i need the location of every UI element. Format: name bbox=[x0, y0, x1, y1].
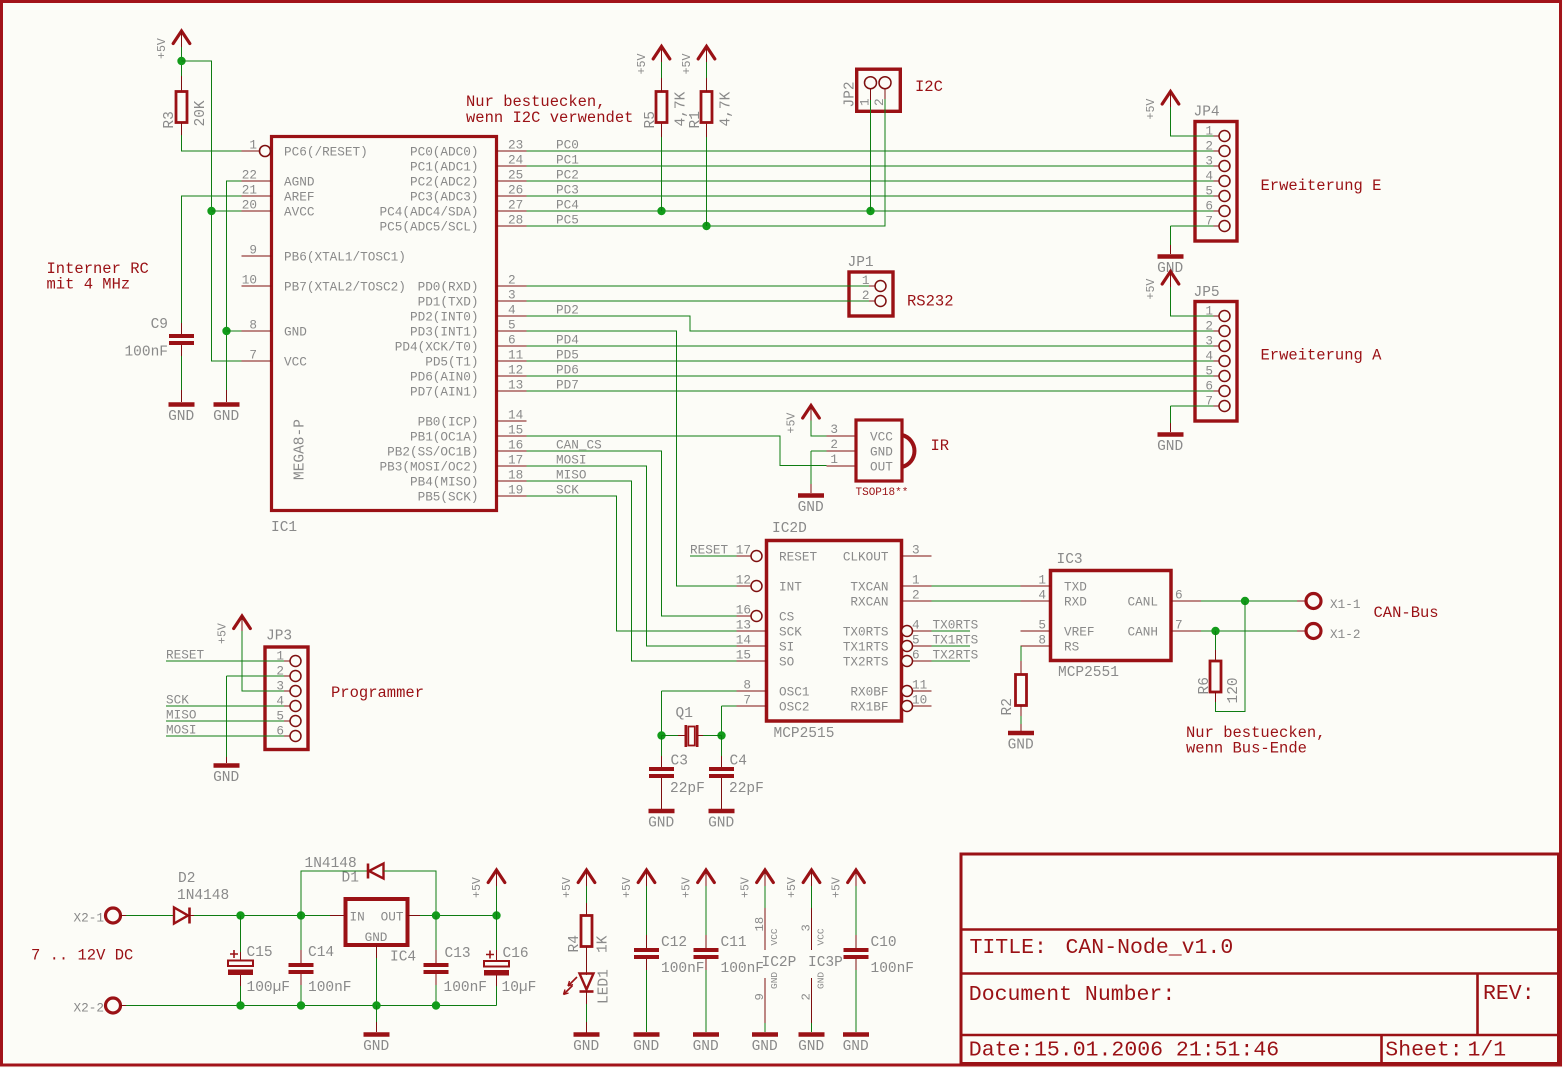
svg-text:2: 2 bbox=[508, 273, 516, 288]
svg-text:+5V: +5V bbox=[621, 877, 634, 898]
svg-text:PC2(ADC2): PC2(ADC2) bbox=[410, 175, 479, 190]
svg-text:C15: C15 bbox=[247, 945, 273, 961]
svg-text:6: 6 bbox=[1175, 588, 1183, 603]
svg-text:Q1: Q1 bbox=[676, 706, 693, 722]
svg-text:RXCAN: RXCAN bbox=[850, 595, 888, 610]
svg-text:17: 17 bbox=[736, 543, 751, 558]
svg-text:PD0(RXD): PD0(RXD) bbox=[418, 280, 479, 295]
svg-text:MOSI: MOSI bbox=[556, 453, 586, 468]
svg-text:1: 1 bbox=[862, 273, 870, 288]
svg-text:1: 1 bbox=[1038, 573, 1046, 588]
svg-text:+5V: +5V bbox=[681, 877, 694, 898]
svg-text:CAN-Bus: CAN-Bus bbox=[1374, 604, 1439, 622]
svg-text:RS232: RS232 bbox=[907, 293, 954, 311]
svg-text:100nF: 100nF bbox=[124, 345, 168, 361]
svg-text:16: 16 bbox=[508, 438, 523, 453]
svg-text:AREF: AREF bbox=[284, 190, 314, 205]
svg-text:18: 18 bbox=[753, 917, 767, 932]
svg-text:PB0(ICP): PB0(ICP) bbox=[418, 415, 479, 430]
svg-text:TX2RTS: TX2RTS bbox=[843, 655, 889, 670]
svg-text:IC3: IC3 bbox=[1057, 552, 1083, 568]
svg-text:Programmer: Programmer bbox=[331, 684, 424, 702]
svg-text:100nF: 100nF bbox=[308, 980, 352, 996]
svg-text:12: 12 bbox=[736, 573, 751, 588]
svg-text:GND: GND bbox=[633, 1039, 659, 1055]
svg-text:3: 3 bbox=[1205, 154, 1213, 169]
svg-text:GND: GND bbox=[798, 500, 824, 516]
svg-text:TXD: TXD bbox=[1064, 580, 1087, 595]
svg-text:CANL: CANL bbox=[1128, 595, 1158, 610]
svg-text:2: 2 bbox=[800, 993, 814, 1000]
svg-text:AGND: AGND bbox=[284, 175, 314, 190]
svg-text:+5V: +5V bbox=[1145, 99, 1158, 120]
svg-text:IC2P: IC2P bbox=[762, 955, 797, 971]
svg-text:20K: 20K bbox=[193, 100, 209, 126]
svg-text:5: 5 bbox=[508, 318, 516, 333]
svg-text:MISO: MISO bbox=[166, 708, 196, 723]
svg-text:RX0BF: RX0BF bbox=[850, 685, 888, 700]
svg-text:GND: GND bbox=[1157, 439, 1183, 455]
svg-text:GND: GND bbox=[213, 409, 239, 425]
svg-text:VREF: VREF bbox=[1064, 625, 1094, 640]
svg-text:SCK: SCK bbox=[556, 483, 579, 498]
svg-text:MISO: MISO bbox=[556, 468, 586, 483]
svg-text:8: 8 bbox=[743, 678, 751, 693]
svg-text:21: 21 bbox=[242, 183, 257, 198]
svg-text:C14: C14 bbox=[308, 945, 334, 961]
svg-text:LED1: LED1 bbox=[597, 969, 613, 1004]
svg-text:R5: R5 bbox=[643, 111, 659, 128]
svg-text:PB4(MISO): PB4(MISO) bbox=[410, 475, 479, 490]
svg-text:PD6: PD6 bbox=[556, 363, 579, 378]
svg-text:+5V: +5V bbox=[156, 38, 169, 59]
svg-text:11: 11 bbox=[912, 678, 927, 693]
svg-text:9: 9 bbox=[753, 993, 767, 1000]
svg-text:+5V: +5V bbox=[471, 877, 484, 898]
svg-text:GND: GND bbox=[1008, 738, 1034, 754]
svg-text:RXD: RXD bbox=[1064, 595, 1087, 610]
svg-text:17: 17 bbox=[508, 453, 523, 468]
svg-text:22pF: 22pF bbox=[729, 781, 764, 797]
svg-text:C13: C13 bbox=[445, 946, 471, 962]
svg-text:PD4: PD4 bbox=[556, 333, 579, 348]
svg-text:IC4: IC4 bbox=[390, 950, 416, 966]
svg-text:Sheet:: Sheet: bbox=[1385, 1039, 1462, 1063]
svg-text:10: 10 bbox=[912, 693, 927, 708]
svg-text:1: 1 bbox=[830, 452, 838, 467]
svg-text:4: 4 bbox=[1038, 588, 1046, 603]
svg-text:1: 1 bbox=[249, 138, 257, 153]
svg-text:C11: C11 bbox=[721, 935, 747, 951]
svg-text:15.01.2006 21:51:46: 15.01.2006 21:51:46 bbox=[1034, 1039, 1279, 1063]
svg-text:8: 8 bbox=[1038, 633, 1046, 648]
svg-text:OUT: OUT bbox=[381, 910, 404, 925]
svg-text:+5V: +5V bbox=[561, 877, 574, 898]
svg-text:OSC2: OSC2 bbox=[779, 700, 809, 715]
svg-text:GND: GND bbox=[816, 972, 827, 989]
svg-text:15: 15 bbox=[736, 648, 751, 663]
svg-text:C9: C9 bbox=[151, 317, 168, 333]
svg-text:C4: C4 bbox=[730, 754, 747, 770]
svg-text:IC2D: IC2D bbox=[772, 521, 807, 537]
svg-text:JP2: JP2 bbox=[843, 81, 859, 107]
svg-text:5: 5 bbox=[1205, 184, 1213, 199]
svg-text:12: 12 bbox=[508, 363, 523, 378]
svg-text:GND: GND bbox=[843, 1039, 869, 1055]
svg-text:3: 3 bbox=[912, 543, 920, 558]
svg-text:PD2: PD2 bbox=[556, 303, 579, 318]
svg-text:GND: GND bbox=[573, 1039, 599, 1055]
svg-text:+5V: +5V bbox=[217, 623, 230, 644]
svg-text:SO: SO bbox=[779, 655, 794, 670]
svg-text:PD5(T1): PD5(T1) bbox=[425, 355, 478, 370]
svg-text:PD3(INT1): PD3(INT1) bbox=[410, 325, 479, 340]
svg-text:5: 5 bbox=[1205, 364, 1213, 379]
svg-text:26: 26 bbox=[508, 183, 523, 198]
svg-text:100nF: 100nF bbox=[444, 980, 488, 996]
svg-text:X1-1: X1-1 bbox=[1330, 597, 1360, 612]
svg-text:VCC: VCC bbox=[870, 430, 893, 445]
svg-text:PC0: PC0 bbox=[556, 138, 579, 153]
svg-text:6: 6 bbox=[276, 724, 284, 739]
svg-text:Erweiterung A: Erweiterung A bbox=[1261, 347, 1383, 365]
svg-text:GND: GND bbox=[213, 770, 239, 786]
svg-text:2: 2 bbox=[862, 288, 870, 303]
svg-text:4: 4 bbox=[276, 694, 284, 709]
svg-text:IC1: IC1 bbox=[271, 520, 297, 536]
svg-text:PC3: PC3 bbox=[556, 183, 579, 198]
svg-text:5: 5 bbox=[912, 633, 920, 648]
svg-text:14: 14 bbox=[736, 633, 751, 648]
svg-text:24: 24 bbox=[508, 153, 523, 168]
svg-text:PD7(AIN1): PD7(AIN1) bbox=[410, 385, 479, 400]
svg-text:1/1: 1/1 bbox=[1468, 1039, 1507, 1063]
svg-text:PC1(ADC1): PC1(ADC1) bbox=[410, 160, 479, 175]
svg-text:+5V: +5V bbox=[740, 877, 753, 898]
svg-text:4: 4 bbox=[508, 303, 516, 318]
svg-text:3: 3 bbox=[276, 679, 284, 694]
svg-text:IN: IN bbox=[350, 910, 365, 925]
svg-text:SCK: SCK bbox=[779, 625, 802, 640]
svg-text:TX2RTS: TX2RTS bbox=[933, 648, 979, 663]
svg-text:wenn Bus-Ende: wenn Bus-Ende bbox=[1186, 740, 1307, 758]
svg-text:TITLE:: TITLE: bbox=[970, 936, 1047, 960]
svg-text:CS: CS bbox=[779, 610, 794, 625]
svg-text:GND: GND bbox=[752, 1039, 778, 1055]
svg-text:+5V: +5V bbox=[786, 413, 799, 434]
svg-text:PB2(SS/OC1B): PB2(SS/OC1B) bbox=[387, 445, 478, 460]
svg-text:PD1(TXD): PD1(TXD) bbox=[418, 295, 479, 310]
svg-text:C12: C12 bbox=[661, 935, 687, 951]
svg-text:2: 2 bbox=[1205, 139, 1213, 154]
svg-text:C3: C3 bbox=[671, 754, 688, 770]
svg-text:X2-1: X2-1 bbox=[74, 911, 104, 926]
svg-text:1: 1 bbox=[1205, 124, 1213, 139]
svg-text:D2: D2 bbox=[178, 871, 195, 887]
svg-text:GND: GND bbox=[693, 1039, 719, 1055]
svg-text:120: 120 bbox=[1226, 677, 1242, 703]
svg-text:OUT: OUT bbox=[870, 460, 893, 475]
svg-text:PC3(ADC3): PC3(ADC3) bbox=[410, 190, 479, 205]
svg-text:R4: R4 bbox=[567, 935, 583, 952]
svg-text:10µF: 10µF bbox=[502, 980, 537, 996]
svg-text:3: 3 bbox=[508, 288, 516, 303]
svg-text:6: 6 bbox=[912, 648, 920, 663]
svg-text:5: 5 bbox=[276, 709, 284, 724]
svg-text:PB3(MOSI/OC2): PB3(MOSI/OC2) bbox=[380, 460, 479, 475]
svg-text:C16: C16 bbox=[503, 946, 529, 962]
svg-text:CLKOUT: CLKOUT bbox=[843, 550, 889, 565]
svg-text:PC5: PC5 bbox=[556, 213, 579, 228]
svg-text:GND: GND bbox=[870, 445, 893, 460]
svg-text:23: 23 bbox=[508, 138, 523, 153]
svg-text:MCP2551: MCP2551 bbox=[1058, 665, 1119, 681]
svg-text:PD2(INT0): PD2(INT0) bbox=[410, 310, 479, 325]
svg-text:SI: SI bbox=[779, 640, 794, 655]
svg-text:D1: D1 bbox=[342, 871, 359, 887]
svg-text:PD5: PD5 bbox=[556, 348, 579, 363]
svg-text:TSOP18**: TSOP18** bbox=[856, 487, 909, 499]
svg-text:7: 7 bbox=[1205, 394, 1213, 409]
svg-text:MOSI: MOSI bbox=[166, 723, 196, 738]
svg-text:1: 1 bbox=[912, 573, 920, 588]
svg-text:GND: GND bbox=[708, 816, 734, 832]
svg-text:1K: 1K bbox=[596, 935, 612, 953]
svg-text:PD6(AIN0): PD6(AIN0) bbox=[410, 370, 479, 385]
svg-text:GND: GND bbox=[648, 816, 674, 832]
svg-text:PC5(ADC5/SCL): PC5(ADC5/SCL) bbox=[380, 220, 479, 235]
svg-text:7: 7 bbox=[249, 348, 257, 363]
svg-text:9: 9 bbox=[249, 243, 257, 258]
svg-text:PB5(SCK): PB5(SCK) bbox=[418, 490, 479, 505]
svg-text:13: 13 bbox=[736, 618, 751, 633]
svg-text:PC6(/RESET): PC6(/RESET) bbox=[284, 145, 368, 160]
svg-text:MCP2515: MCP2515 bbox=[774, 726, 835, 742]
svg-text:15: 15 bbox=[508, 423, 523, 438]
svg-text:SCK: SCK bbox=[166, 693, 189, 708]
svg-text:4: 4 bbox=[912, 618, 920, 633]
svg-text:+5V: +5V bbox=[1145, 279, 1158, 300]
svg-text:JP3: JP3 bbox=[266, 629, 292, 645]
svg-text:X1-2: X1-2 bbox=[1330, 627, 1360, 642]
svg-text:+5V: +5V bbox=[636, 53, 649, 74]
svg-text:IC3P: IC3P bbox=[808, 955, 843, 971]
svg-text:25: 25 bbox=[508, 168, 523, 183]
svg-text:27: 27 bbox=[508, 198, 523, 213]
svg-text:PD4(XCK/T0): PD4(XCK/T0) bbox=[395, 340, 479, 355]
svg-text:16: 16 bbox=[736, 603, 751, 618]
svg-text:GND: GND bbox=[168, 409, 194, 425]
svg-text:OSC1: OSC1 bbox=[779, 685, 809, 700]
svg-text:R3: R3 bbox=[162, 111, 178, 128]
svg-text:6: 6 bbox=[1205, 379, 1213, 394]
svg-text:X2-2: X2-2 bbox=[74, 1001, 104, 1016]
svg-text:5: 5 bbox=[1038, 618, 1046, 633]
svg-text:Date:: Date: bbox=[969, 1039, 1034, 1063]
svg-text:4,7K: 4,7K bbox=[718, 91, 734, 126]
svg-text:GND: GND bbox=[798, 1039, 824, 1055]
svg-text:TXCAN: TXCAN bbox=[850, 580, 888, 595]
svg-text:6: 6 bbox=[508, 333, 516, 348]
svg-text:7 .. 12V DC: 7 .. 12V DC bbox=[31, 947, 133, 965]
svg-text:1: 1 bbox=[276, 649, 284, 664]
svg-text:PC2: PC2 bbox=[556, 168, 579, 183]
svg-text:PD7: PD7 bbox=[556, 378, 579, 393]
svg-text:100µF: 100µF bbox=[247, 980, 291, 996]
svg-text:IR: IR bbox=[931, 437, 950, 455]
svg-text:19: 19 bbox=[508, 483, 523, 498]
svg-text:R2: R2 bbox=[1000, 698, 1016, 715]
svg-text:7: 7 bbox=[1175, 618, 1183, 633]
svg-text:CAN-Node_v1.0: CAN-Node_v1.0 bbox=[1066, 936, 1234, 960]
svg-text:TX1RTS: TX1RTS bbox=[843, 640, 889, 655]
svg-text:mit 4 MHz: mit 4 MHz bbox=[47, 276, 131, 294]
svg-text:AVCC: AVCC bbox=[284, 205, 315, 220]
svg-text:PC4(ADC4/SDA): PC4(ADC4/SDA) bbox=[380, 205, 479, 220]
svg-text:+5V: +5V bbox=[831, 877, 844, 898]
svg-text:4: 4 bbox=[1205, 349, 1213, 364]
svg-text:VCC: VCC bbox=[816, 928, 827, 945]
svg-text:1: 1 bbox=[1205, 304, 1213, 319]
svg-text:1N4148: 1N4148 bbox=[177, 888, 229, 904]
svg-text:Document Number:: Document Number: bbox=[969, 983, 1175, 1007]
svg-text:TX0RTS: TX0RTS bbox=[933, 618, 979, 633]
svg-text:20: 20 bbox=[242, 198, 257, 213]
svg-text:22pF: 22pF bbox=[670, 781, 705, 797]
svg-text:PB6(XTAL1/TOSC1): PB6(XTAL1/TOSC1) bbox=[284, 250, 406, 265]
svg-text:GND: GND bbox=[365, 930, 388, 945]
svg-text:RESET: RESET bbox=[690, 543, 728, 558]
svg-text:3: 3 bbox=[830, 422, 838, 437]
svg-text:2: 2 bbox=[1205, 319, 1213, 334]
svg-text:REV:: REV: bbox=[1483, 982, 1535, 1006]
svg-text:I2C: I2C bbox=[915, 78, 943, 96]
svg-text:GND: GND bbox=[363, 1039, 389, 1055]
svg-text:RS: RS bbox=[1064, 640, 1079, 655]
svg-text:8: 8 bbox=[249, 318, 257, 333]
svg-text:PB7(XTAL2/TOSC2): PB7(XTAL2/TOSC2) bbox=[284, 280, 406, 295]
svg-text:PB1(OC1A): PB1(OC1A) bbox=[410, 430, 479, 445]
svg-text:14: 14 bbox=[508, 408, 523, 423]
svg-text:3: 3 bbox=[800, 924, 814, 931]
svg-text:22: 22 bbox=[242, 168, 257, 183]
svg-text:R1: R1 bbox=[688, 111, 704, 128]
svg-text:CAN_CS: CAN_CS bbox=[556, 438, 602, 453]
svg-text:100nF: 100nF bbox=[661, 961, 705, 977]
svg-text:7: 7 bbox=[1205, 214, 1213, 229]
svg-text:PC0(ADC0): PC0(ADC0) bbox=[410, 145, 479, 160]
svg-text:VCC: VCC bbox=[769, 928, 780, 945]
svg-text:+5V: +5V bbox=[681, 53, 694, 74]
svg-text:CANH: CANH bbox=[1128, 625, 1158, 640]
svg-text:TX0RTS: TX0RTS bbox=[843, 625, 889, 640]
svg-text:2: 2 bbox=[872, 98, 887, 106]
svg-text:PC1: PC1 bbox=[556, 153, 579, 168]
svg-text:11: 11 bbox=[508, 348, 523, 363]
svg-text:GND: GND bbox=[769, 972, 780, 989]
svg-text:PC4: PC4 bbox=[556, 198, 579, 213]
svg-text:wenn I2C verwendet: wenn I2C verwendet bbox=[466, 109, 633, 127]
svg-text:3: 3 bbox=[1205, 334, 1213, 349]
svg-text:7: 7 bbox=[743, 693, 751, 708]
svg-text:18: 18 bbox=[508, 468, 523, 483]
svg-text:JP1: JP1 bbox=[848, 255, 874, 271]
svg-text:MEGA8-P: MEGA8-P bbox=[293, 419, 309, 480]
svg-text:INT: INT bbox=[779, 580, 802, 595]
svg-text:JP5: JP5 bbox=[1194, 285, 1220, 301]
svg-text:VCC: VCC bbox=[284, 355, 307, 370]
svg-text:TX1RTS: TX1RTS bbox=[933, 633, 979, 648]
svg-text:C10: C10 bbox=[871, 935, 897, 951]
svg-text:2: 2 bbox=[830, 437, 838, 452]
svg-text:R6: R6 bbox=[1197, 677, 1213, 694]
svg-text:10: 10 bbox=[242, 273, 257, 288]
svg-text:RESET: RESET bbox=[779, 550, 817, 565]
svg-text:2: 2 bbox=[912, 588, 920, 603]
svg-text:28: 28 bbox=[508, 213, 523, 228]
svg-text:+5V: +5V bbox=[786, 877, 799, 898]
svg-text:1: 1 bbox=[858, 98, 873, 106]
svg-text:Erweiterung E: Erweiterung E bbox=[1261, 177, 1382, 195]
svg-text:100nF: 100nF bbox=[721, 961, 765, 977]
svg-text:JP4: JP4 bbox=[1194, 105, 1220, 121]
svg-text:4: 4 bbox=[1205, 169, 1213, 184]
svg-text:GND: GND bbox=[284, 325, 307, 340]
svg-text:100nF: 100nF bbox=[871, 961, 915, 977]
svg-text:2: 2 bbox=[276, 664, 284, 679]
svg-text:6: 6 bbox=[1205, 199, 1213, 214]
svg-text:RX1BF: RX1BF bbox=[850, 700, 888, 715]
svg-text:13: 13 bbox=[508, 378, 523, 393]
svg-text:RESET: RESET bbox=[166, 648, 204, 663]
